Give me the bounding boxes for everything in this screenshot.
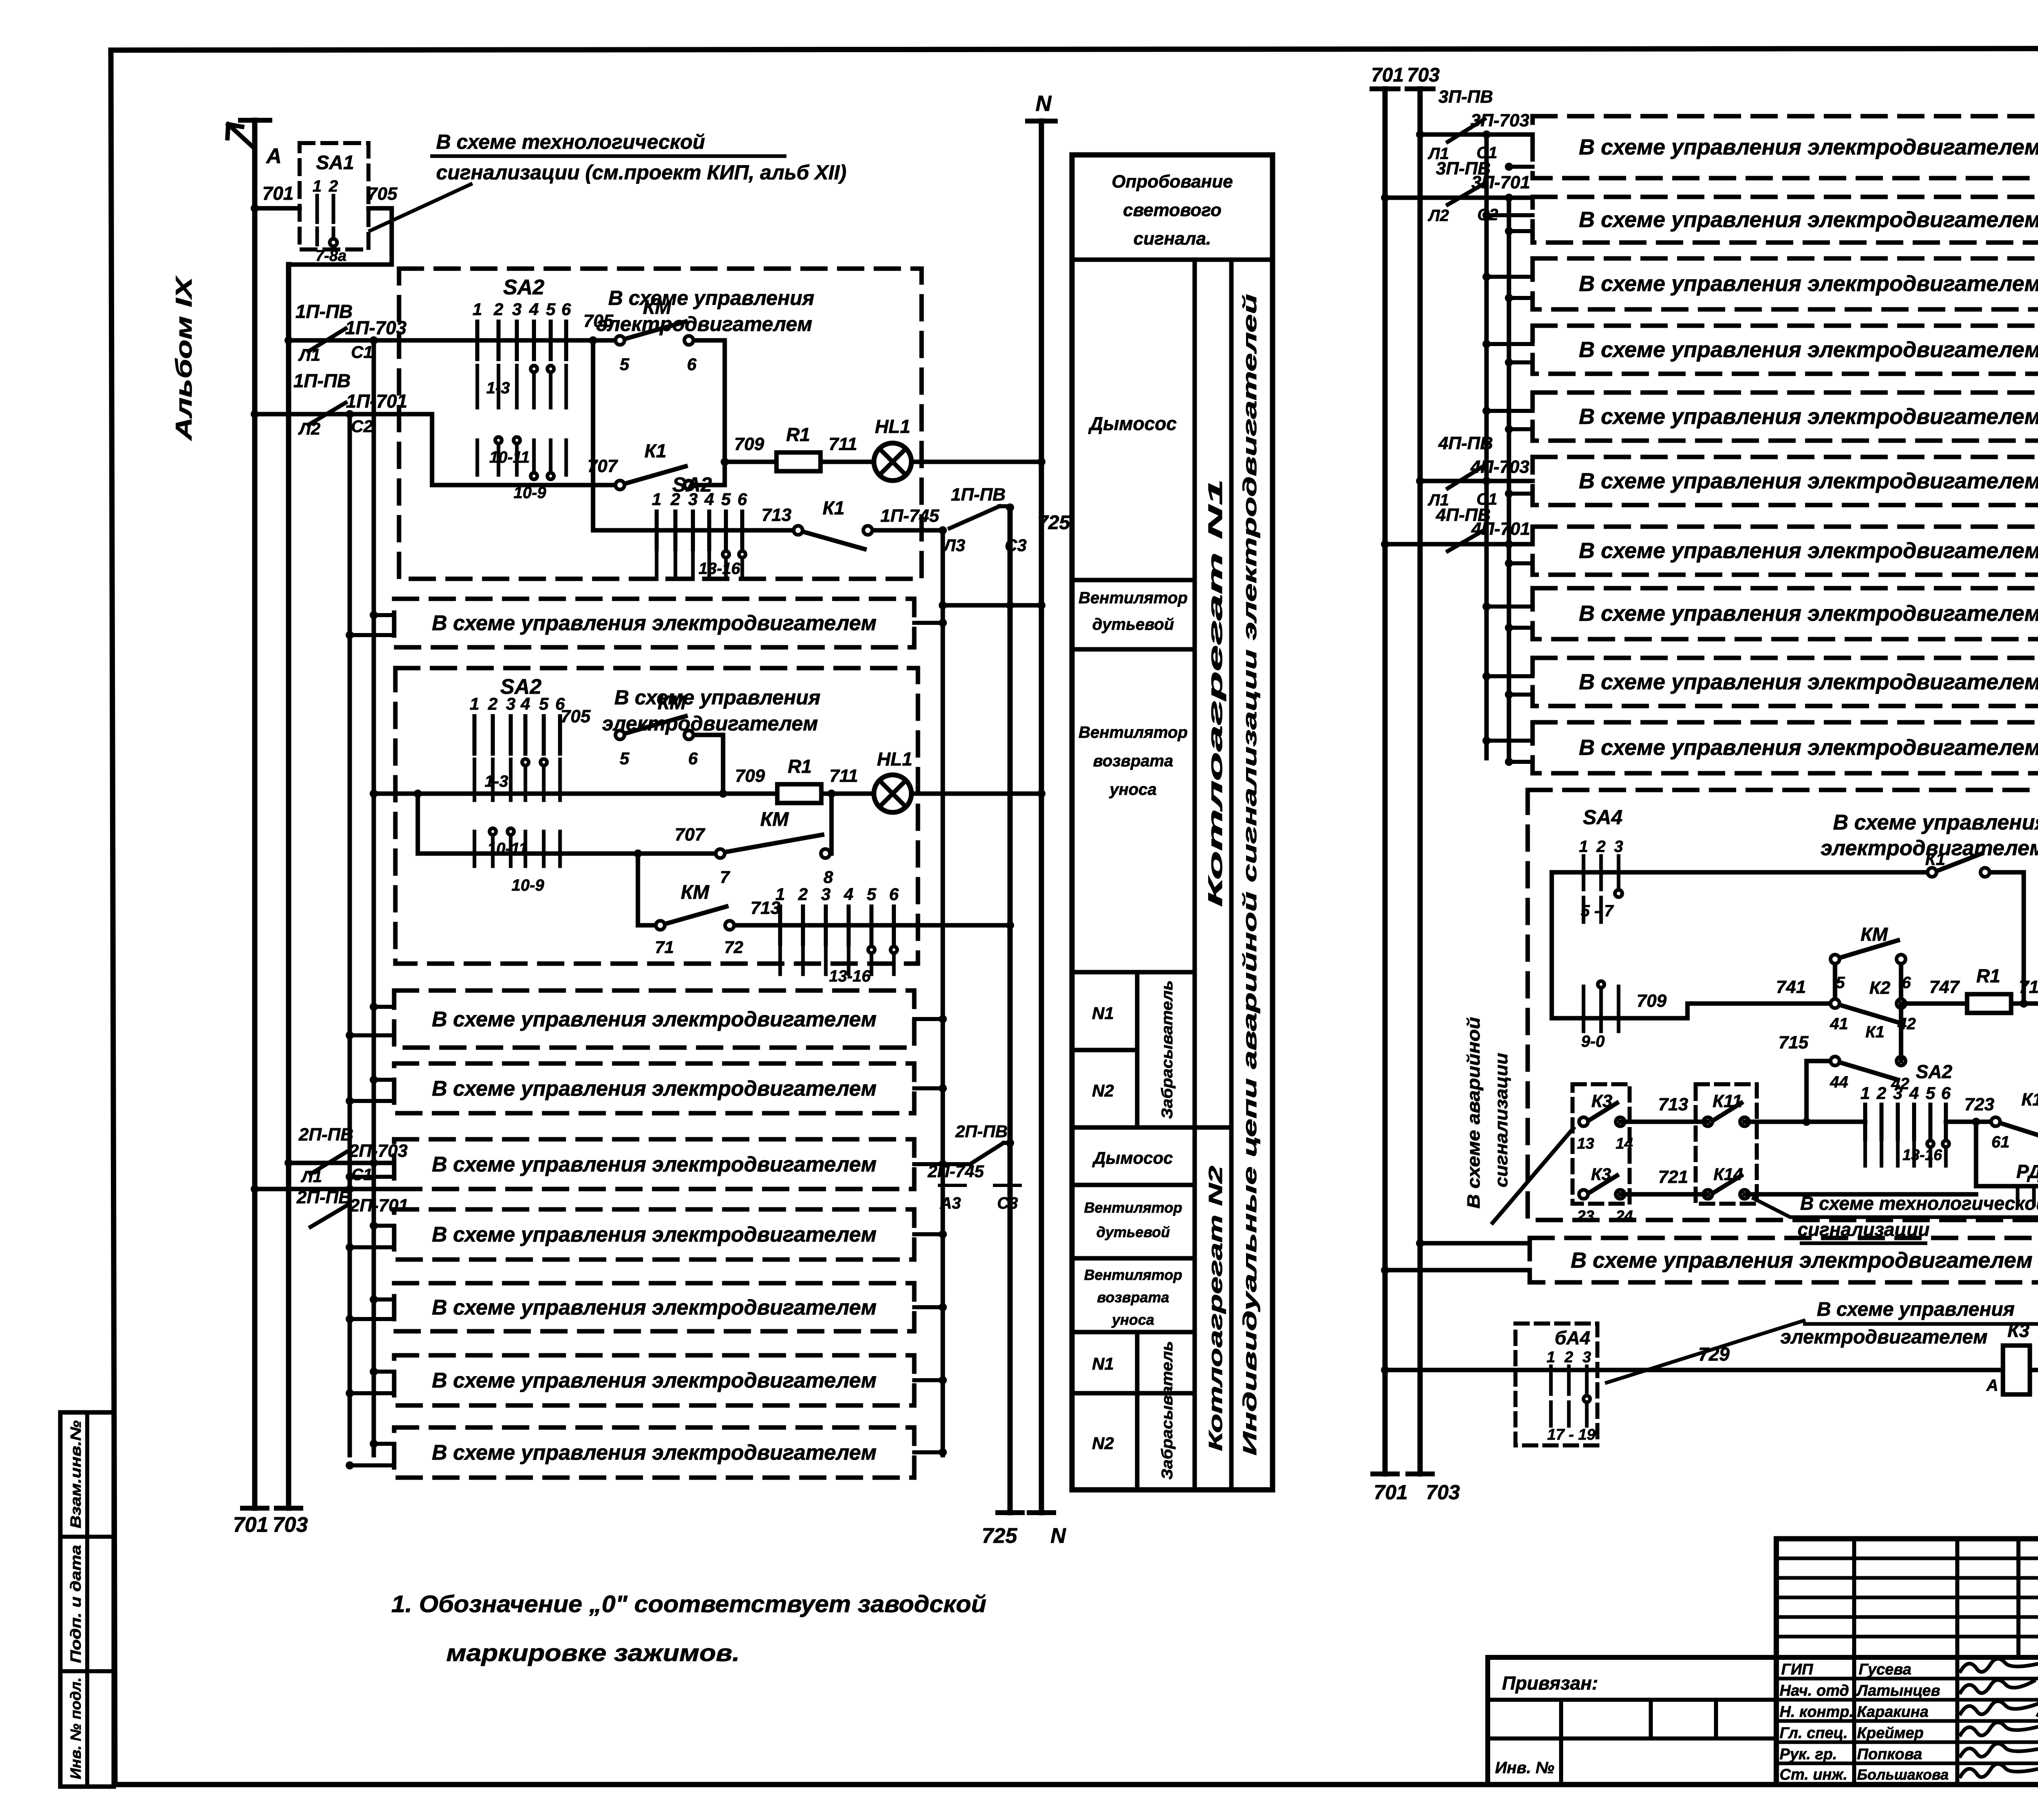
wire stub right [914,1160,947,1168]
svg-text:возврата: возврата [1093,752,1173,770]
dashed box: to motor control scheme (left row 1) [394,599,914,647]
wire stubs left (right rows) [1482,602,1533,632]
pressure relay РД [1972,1118,2038,1218]
wire stubs left (right rows) [1505,490,1533,498]
svg-text:В схеме управления: В схеме управления [1833,811,2038,834]
svg-text:Индивидуальные цепи аварий: Индивидуальные цепи аварийной сигнализац… [1239,294,1260,1456]
svg-text:5: 5 [620,749,629,768]
dashed box: to motor control scheme (right row 10) [1533,722,2038,773]
column Котлоагрегат N1 (rotated) [1205,479,1226,907]
svg-text:SA2: SA2 [503,276,544,299]
svg-text:N: N [1050,1524,1066,1548]
svg-text:уноса: уноса [1109,781,1156,799]
svg-text:Подп. и дата: Подп. и дата [67,1545,84,1663]
svg-text:4П-701: 4П-701 [1471,519,1530,539]
svg-text:возврата: возврата [1097,1289,1169,1306]
cell Забрасыватель (boiler 2, rotated) [1159,1341,1176,1480]
svg-text:В схеме управления: В схеме управления электродвигателем [432,1223,876,1246]
svg-text:Вентилятор: Вентилятор [1084,1199,1182,1216]
note: to process signalling scheme [370,130,847,231]
svg-text:Нач. отд: Нач. отд [1780,1682,1849,1699]
svg-text:41: 41 [1830,1015,1848,1033]
svg-text:71: 71 [655,938,674,957]
svg-text:В схеме технологической: В схеме технологической [1800,1193,2038,1214]
wire stub right [914,1230,947,1238]
wire stubs left (right rows) [1505,559,1533,567]
wire stubs left [346,1076,394,1105]
dashed box: motor control scheme (smoke exhauster boiler 1) [399,269,922,579]
svg-text:В схеме управления: В схеме управления электродвигателем [432,1153,876,1176]
svg-text:4: 4 [529,300,538,319]
bus 703 (left) [276,265,301,1508]
dashed box: to motor control scheme (pump N2 row) [1530,1238,2038,1282]
svg-text:Л2: Л2 [1427,207,1449,225]
dashed box: motor control scheme (pump N1) [1528,790,2038,1220]
svg-text:Креймер: Креймер [1857,1725,1923,1742]
dashed box: to motor control scheme (right row 7) [1533,527,2038,575]
wire 713 with contact K1 [593,497,943,549]
svg-text:6: 6 [1941,1083,1951,1103]
svg-text:709: 709 [735,766,765,786]
title block frame [1776,1539,2038,1785]
svg-text:3П-ПВ: 3П-ПВ [1438,87,1493,107]
svg-text:Латынцев: Латынцев [1856,1682,1940,1699]
svg-text:713: 713 [761,505,791,525]
wire stubs left (right rows) [1482,407,1533,433]
svg-text:701: 701 [233,1513,269,1537]
wire 709 [721,434,776,466]
svg-text:6: 6 [737,490,747,509]
label Инв. № [1495,1759,1554,1777]
svg-text:705: 705 [560,706,591,726]
svg-text:3: 3 [1582,1349,1591,1366]
wire 713 (box2) [734,898,1014,929]
svg-text:К3: К3 [1591,1165,1611,1184]
contact KM (box1, 5-6) [583,297,697,374]
bottom bus labels 701 703 [233,1513,308,1537]
svg-text:Каракина: Каракина [1857,1703,1928,1721]
dashed box: to motor control scheme (left row 8) [394,1427,914,1478]
svg-text:2П-701: 2П-701 [349,1196,408,1216]
wire stubs left (right rows) [1482,273,1533,302]
svg-text:Ст. инж.: Ст. инж. [1780,1766,1848,1783]
svg-text:Котлоагрегат N2: Котлоагрегат N2 [1205,1165,1226,1451]
svg-text:Л1: Л1 [300,1168,322,1186]
svg-text:729: 729 [1698,1343,1730,1365]
svg-text:3П-701: 3П-701 [1471,172,1530,192]
selector switch бА4 (dashed box) [1515,1324,1597,1445]
svg-text:N: N [1036,91,1052,116]
svg-text:К3: К3 [2007,1320,2029,1341]
svg-text:маркировке зажимов.: маркировке зажимов. [446,1640,740,1666]
svg-text:1. Обозначение „0" соответс: 1. Обозначение „0" соответствует заводск… [391,1591,986,1617]
svg-text:Л1: Л1 [298,345,320,364]
wire SA4 top row [1552,870,1932,875]
lamp HL1 (box1) [874,416,911,481]
left margin stamp strip [60,1412,114,1787]
svg-text:КМ: КМ [681,882,710,903]
svg-text:719: 719 [2019,977,2038,997]
svg-text:Опробование: Опробование [1112,172,1233,192]
arrow A at bus top [227,124,282,168]
svg-text:5: 5 [539,694,549,713]
svg-text:709: 709 [1637,991,1667,1011]
cell N1 (boiler 2) [1092,1354,1114,1373]
svg-text:5: 5 [1836,974,1845,992]
svg-text:В схеме управления эле: В схеме управления электродвигателем [1579,404,2038,429]
dashed box: to motor control scheme (right row 1) [1533,116,2038,178]
wire stubs left [346,1440,394,1469]
svg-text:8: 8 [823,867,833,887]
cell Забрасыватель (boiler 1, rotated) [1159,980,1176,1119]
wire 2П-701 [251,1185,394,1193]
svg-text:1: 1 [470,694,479,713]
svg-text:С3: С3 [997,1194,1018,1212]
bus 701 (right) [1371,64,1404,1474]
svg-text:17 - 19: 17 - 19 [1547,1426,1595,1443]
resistor R1 (box1) [776,424,820,471]
wire 721 [1620,1167,1976,1194]
contact К2 (41-42) [1830,978,1916,1041]
svg-text:В схеме управления: В схеме управления электродвигателем [432,1008,876,1031]
svg-text:N2: N2 [1092,1081,1114,1100]
wire 3П-701 [1381,194,1533,225]
svg-text:С1: С1 [351,342,373,362]
svg-text:Н. контр.: Н. контр. [1780,1703,1854,1721]
wire stubs left [346,1295,394,1323]
dashed box: to motor control scheme (right row 4) [1533,326,2038,374]
dashed box: to motor control scheme (left row 6) [394,1283,914,1331]
wire KM right to lamp row [694,735,727,798]
relay coil К3 [1986,1320,2038,1394]
resistor R1 (box2) [777,756,821,803]
svg-text:В схеме управления эле: В схеме управления электродвигателем [1579,271,2038,296]
svg-text:R1: R1 [1976,965,2001,986]
svg-text:Привязан:: Привязан: [1502,1672,1598,1694]
wire stub right [914,1084,947,1092]
link row1 to N [939,601,1045,609]
cell N2 (boiler 1) [1092,1081,1114,1100]
svg-text:Попкова: Попкова [1857,1746,1922,1763]
selector switch SA4 [1579,806,1623,1050]
svg-text:SA1: SA1 [316,152,354,174]
svg-text:1: 1 [472,300,482,319]
switch 4П-ПВ (upper) [1438,433,1529,488]
switch 1П-ПВ (upper) [296,301,407,351]
svg-text:сигнализации (см.проект КИП,: сигнализации (см.проект КИП, альб XII) [436,161,847,184]
svg-text:1П-ПВ: 1П-ПВ [951,485,1006,505]
svg-text:HL1: HL1 [875,416,911,437]
cell N2 (boiler 2) [1092,1434,1114,1453]
svg-text:Инв. №: Инв. № [1495,1759,1554,1777]
bottom labels 701 703 (right) [1374,1481,1460,1504]
bypass contact КМ (5-6) [1831,924,1911,1004]
svg-text:В схеме управления эле: В схеме управления электродвигателем [1579,207,2038,232]
svg-text:А: А [265,144,282,168]
svg-text:5: 5 [546,300,556,319]
svg-text:Л2: Л2 [298,419,320,438]
note: to emergency signalling scheme (rotated) [1464,1017,1573,1223]
svg-text:светового: светового [1123,200,1221,220]
svg-text:703: 703 [1426,1481,1460,1504]
svg-text:В схеме управления: В схеме управления [614,686,820,709]
svg-text:С3: С3 [1005,536,1027,555]
svg-text:1: 1 [1546,1349,1555,1366]
svg-text:В схеме управления: В схеме управления электродвигателем [432,1369,876,1392]
svg-text:А: А [1986,1377,1998,1394]
svg-text:4: 4 [843,885,853,904]
svg-text:5: 5 [1926,1083,1935,1103]
cell Подп. и дата [67,1545,84,1663]
cell Дымосос (boiler 1) [1088,413,1177,434]
svg-text:В схеме управления: В схеме управления [1817,1299,2014,1320]
svg-text:4П-703: 4П-703 [1470,457,1529,477]
svg-text:711: 711 [829,766,858,786]
svg-text:6: 6 [687,355,697,374]
svg-text:715: 715 [1778,1032,1809,1052]
svg-text:N1: N1 [1092,1004,1114,1023]
svg-text:С2: С2 [351,417,373,436]
switch 1П-ПВ (lower) [293,370,408,425]
right collector vertical [941,530,945,1455]
svg-text:5: 5 [867,885,876,904]
svg-text:741: 741 [1776,977,1806,997]
svg-text:1: 1 [1579,838,1588,856]
svg-text:В схеме управления эле: В схеме управления электродвигателем [1579,469,2038,493]
svg-text:713: 713 [1658,1094,1688,1114]
wire SA1 to node 705 [367,184,397,208]
wire lamp to N bus [911,458,1045,466]
wire 4П-701 [1381,540,1533,548]
album label (rotated) [171,275,196,441]
svg-text:24: 24 [1615,1208,1633,1225]
SA1 contacts 1,2 [313,177,346,265]
wire stubs left [346,1368,394,1397]
dashed box: to motor control scheme (left row 4) [394,1139,914,1189]
attachment box Привязан [1488,1657,1776,1785]
wire lamp2 to N bus [911,790,1045,798]
switch 2П-ПВ (upper) [298,1125,408,1174]
svg-text:Забрасыватель: Забрасыватель [1159,1341,1176,1480]
svg-text:1: 1 [1860,1083,1870,1103]
svg-text:К2: К2 [1869,978,1890,998]
svg-text:Вентилятор: Вентилятор [1079,589,1188,607]
svg-text:бА4: бА4 [1555,1327,1590,1348]
svg-text:дутьевой: дутьевой [1096,1224,1170,1240]
svg-text:С1: С1 [351,1166,372,1184]
wire stubs left (right rows) [1482,211,1533,235]
svg-text:14: 14 [1616,1135,1633,1152]
svg-text:9-0: 9-0 [1581,1032,1605,1050]
svg-text:721: 721 [1658,1167,1688,1187]
svg-text:1П-ПВ: 1П-ПВ [293,370,351,391]
wire 729 [1381,1343,2003,1374]
wires from buses to pump N2 row [1381,1239,1530,1274]
svg-text:В схеме управления эле: В схеме управления электродвигателем [1579,601,2038,626]
wire 715 with contact К1 (44-42) [1778,1004,1909,1093]
svg-text:13-16: 13-16 [1902,1147,1942,1164]
svg-text:КМ: КМ [1861,924,1888,945]
svg-text:В схеме управления: В схеме управления электродвигателем [432,1441,876,1465]
svg-text:R1: R1 [786,424,810,445]
wire stubs left [346,1003,394,1039]
svg-text:1-3: 1-3 [485,772,508,790]
cell Взам. инв. № [67,1421,84,1529]
wire stubs left (right rows) [1482,672,1533,699]
svg-text:ГИП: ГИП [1781,1661,1813,1678]
contact KM (box2, 71-72) [638,882,743,957]
feeder С2 (3П/4П) [1507,198,1511,762]
column Индивидуальные цепи аварийной сигнализации электродвигателей (rotated, left table) [1239,294,1260,1456]
svg-text:7-8а: 7-8а [315,247,346,265]
svg-text:7: 7 [720,867,730,887]
svg-text:4: 4 [704,490,714,509]
svg-text:Котлоагрегат N1: Котлоагрегат N1 [1205,479,1226,907]
svg-text:707: 707 [587,456,618,476]
lamp wire 741 [1687,977,1835,1004]
svg-text:Вентилятор: Вентилятор [1079,724,1188,741]
elbow to KM 7-8 row [414,790,720,854]
wire stubs left (right rows) [1482,737,1533,766]
svg-text:К1: К1 [1866,1023,1885,1041]
switch 2П-ПВ (lower) [296,1187,408,1227]
svg-text:701: 701 [262,183,294,204]
wire KM to lamp row [694,340,725,485]
signature rows [1781,1659,2038,1678]
wire 711 [820,434,874,462]
dashed box: to motor control scheme (right row 6) [1533,457,2038,505]
wire 1П-703 [285,336,620,364]
svg-text:1-3: 1-3 [486,379,510,397]
wire stubs left (right rows) [1505,163,1533,171]
svg-text:6: 6 [889,885,899,904]
svg-text:дутьевой: дутьевой [1092,615,1174,633]
wire 723 with contact К1 (61-62) [1946,1090,2038,1151]
svg-text:Забрасыватель: Забрасыватель [1159,980,1176,1119]
svg-text:В схеме управления: В схеме управления электродвигателем [1570,1248,2032,1273]
svg-text:13: 13 [1577,1135,1594,1152]
bus 703 (right) [1407,64,1440,1474]
svg-text:К11: К11 [1713,1091,1742,1111]
svg-text:В схеме управления: В схеме управления [608,287,814,309]
svg-text:РД: РД [2016,1161,2038,1182]
svg-text:3: 3 [512,300,521,319]
svg-text:10-9: 10-9 [512,876,545,894]
svg-text:6: 6 [688,749,698,768]
wire 1П-701 [251,410,432,438]
svg-text:Дымосос: Дымосос [1092,1148,1173,1167]
svg-text:Дымосос: Дымосос [1088,413,1177,434]
dashed box: to motor control scheme (right row 8) [1533,588,2038,639]
svg-text:747: 747 [1929,977,1960,997]
svg-text:К1: К1 [823,497,845,518]
cell N1 (boiler 1) [1092,1004,1114,1023]
wire stub right [914,1376,947,1384]
svg-text:В схеме управления: В схеме управления электродвигателем [432,1077,876,1101]
svg-text:В схеме управления эле: В схеме управления электродвигателем [1579,135,2038,159]
selector switch SA2 (box 2 top) [470,675,565,894]
svg-text:5: 5 [721,490,731,509]
dashed box: motor control scheme (return-fan boiler 1) [395,668,918,964]
vertical 705 feeder inside box1 [589,336,597,530]
svg-text:23: 23 [1577,1208,1594,1225]
dashed box: to motor control scheme (right row 5) [1533,393,2038,441]
svg-text:HL1: HL1 [877,748,913,770]
svg-text:К14: К14 [1714,1165,1743,1184]
svg-text:КМ: КМ [643,297,672,318]
wire stubs left (right rows) [1482,340,1533,366]
svg-text:3: 3 [506,694,515,713]
svg-text:В схеме управления эле: В схеме управления электродвигателем [1579,735,2038,760]
wire stubs left [346,611,394,639]
wire stubs left [346,1173,394,1181]
svg-text:72: 72 [724,938,743,957]
svg-text:SA4: SA4 [1583,806,1622,829]
svg-text:725: 725 [982,1524,1018,1548]
svg-text:В схеме управления эле: В схеме управления электродвигателем [1579,338,2038,362]
wire 2П-703 [285,1159,394,1186]
drop 715 to relay row [1802,1061,1811,1126]
svg-text:В схеме управления: В схеме управления электродвигателем [432,1296,876,1319]
switch 1П-ПВ to bus 725 [939,485,1070,555]
vertical SA4 to wire 709 [1550,872,1554,1018]
svg-text:701: 701 [1374,1481,1407,1504]
contact KM (box2, 5-6) [560,692,698,768]
svg-text:А3: А3 [940,1194,961,1212]
svg-text:61: 61 [1992,1133,2010,1151]
feeder C2 vertical [346,410,354,1455]
svg-text:Альбом IX: Альбом IX [171,275,196,441]
svg-text:2П-703: 2П-703 [348,1141,408,1161]
cell Инв. № подл. [67,1677,84,1779]
svg-text:В схеме технологической: В схеме технологической [436,130,705,153]
column Котлоагрегат N2 (rotated) [1205,1165,1226,1451]
svg-text:Взам.инв.№: Взам.инв.№ [67,1421,84,1529]
dashed box: to motor control scheme (right row 9) [1533,658,2038,706]
note text [391,1591,986,1666]
svg-text:703: 703 [1407,64,1440,86]
wire 3П-703 [1416,130,1533,163]
dashed box: to motor control scheme (left row 2) [394,991,914,1048]
svg-text:N2: N2 [1092,1434,1114,1453]
bottom bus labels 725 N [982,1524,1067,1548]
svg-text:сигнализации: сигнализации [1491,1053,1511,1187]
svg-text:2П-745: 2П-745 [927,1162,984,1181]
svg-text:уноса: уноса [1111,1311,1154,1328]
svg-text:Большакова: Большакова [1857,1766,1949,1783]
svg-text:5: 5 [620,355,629,374]
svg-text:К1: К1 [1925,849,1945,869]
wire 719 [2011,977,2038,1004]
svg-text:электродвигателем: электродвигателем [596,313,812,335]
wire 709 (right box) [1552,991,1687,1018]
svg-text:705: 705 [583,311,613,331]
svg-text:5 - 7: 5 - 7 [1581,902,1614,920]
svg-text:сигнала.: сигнала. [1134,229,1211,249]
svg-text:3П-703: 3П-703 [1471,110,1529,130]
svg-text:Л3: Л3 [943,536,965,555]
drop to KM 71-72 row [634,849,642,925]
svg-text:709: 709 [734,434,764,454]
svg-text:КМ: КМ [657,692,686,714]
svg-text:10-11: 10-11 [489,448,529,466]
svg-text:R1: R1 [788,756,812,777]
svg-text:К1: К1 [2021,1090,2038,1110]
svg-text:707: 707 [675,825,706,845]
svg-text:2: 2 [329,177,338,195]
svg-text:2: 2 [1596,838,1606,856]
selector switch SA2 (box1 bottom row) [652,473,747,579]
